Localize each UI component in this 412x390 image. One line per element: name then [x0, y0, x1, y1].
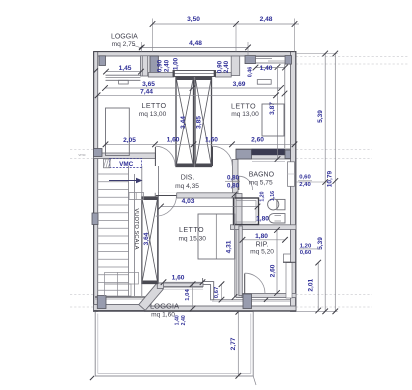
svg-text:1,80: 1,80 — [255, 233, 268, 240]
svg-text:mq 13,00: mq 13,00 — [231, 111, 259, 118]
svg-text:3,69: 3,69 — [233, 81, 246, 88]
svg-text:3,64: 3,64 — [143, 232, 150, 245]
svg-text:mq 13,00: mq 13,00 — [139, 111, 167, 118]
svg-text:1,60: 1,60 — [172, 275, 185, 282]
svg-text:2,48: 2,48 — [260, 16, 273, 23]
svg-text:0,46: 0,46 — [247, 67, 253, 78]
svg-text:0,60: 0,60 — [300, 250, 312, 256]
svg-text:1,16: 1,16 — [270, 191, 276, 201]
svg-text:3,65: 3,65 — [142, 81, 155, 88]
svg-text:2,40: 2,40 — [223, 60, 230, 73]
svg-text:0,80: 0,80 — [227, 175, 240, 182]
svg-text:1,60: 1,60 — [205, 137, 218, 144]
svg-text:mq 5,75: mq 5,75 — [249, 179, 273, 186]
svg-text:LOGGIA: LOGGIA — [150, 302, 180, 311]
svg-text:5,39: 5,39 — [317, 237, 324, 250]
svg-text:1,40: 1,40 — [175, 315, 181, 325]
svg-text:5,39: 5,39 — [317, 110, 324, 123]
svg-text:1,45: 1,45 — [119, 65, 132, 72]
svg-text:2,40: 2,40 — [164, 59, 171, 72]
svg-text:vmc: vmc — [78, 152, 85, 157]
svg-text:4,48: 4,48 — [189, 40, 202, 47]
svg-text:1,80: 1,80 — [256, 215, 269, 222]
svg-text:1,60: 1,60 — [167, 137, 180, 144]
svg-text:VUOTO SCALA: VUOTO SCALA — [133, 208, 139, 249]
svg-text:mq 15,30: mq 15,30 — [178, 236, 206, 243]
svg-text:0,90: 0,90 — [157, 59, 164, 72]
svg-text:mq 1,60: mq 1,60 — [151, 311, 175, 318]
svg-text:mq 2,75: mq 2,75 — [112, 41, 136, 48]
svg-text:3,44: 3,44 — [180, 116, 187, 129]
svg-text:2,01: 2,01 — [308, 278, 315, 291]
svg-text:10,79: 10,79 — [327, 170, 334, 187]
svg-text:DIS.: DIS. — [181, 175, 195, 182]
svg-text:RIP.: RIP. — [256, 242, 269, 249]
svg-text:2,05: 2,05 — [123, 137, 136, 144]
svg-text:LOGGIA: LOGGIA — [111, 34, 138, 41]
svg-text:3,50: 3,50 — [187, 16, 200, 23]
svg-text:4,31: 4,31 — [226, 240, 233, 253]
svg-text:mq 5,20: mq 5,20 — [250, 249, 274, 256]
svg-text:1,04: 1,04 — [185, 289, 191, 301]
svg-text:BAGNO: BAGNO — [249, 172, 275, 179]
svg-text:mq 4,35: mq 4,35 — [175, 183, 199, 190]
svg-text:4,03: 4,03 — [182, 198, 195, 205]
svg-text:1,40: 1,40 — [260, 65, 273, 72]
svg-text:LETTO: LETTO — [231, 102, 256, 111]
svg-text:3,85: 3,85 — [196, 116, 203, 129]
svg-text:2,60: 2,60 — [269, 264, 276, 277]
svg-text:1,20: 1,20 — [260, 191, 266, 201]
svg-text:1,00: 1,00 — [172, 57, 179, 70]
svg-text:2,77: 2,77 — [230, 337, 237, 350]
svg-text:0,80: 0,80 — [227, 182, 240, 189]
svg-text:LETTO: LETTO — [141, 101, 166, 110]
svg-text:2,40: 2,40 — [181, 315, 187, 325]
svg-text:LETTO: LETTO — [179, 225, 204, 234]
svg-text:7,44: 7,44 — [140, 88, 153, 95]
svg-text:0,60: 0,60 — [299, 175, 311, 181]
svg-text:2,60: 2,60 — [251, 137, 264, 144]
svg-text:0,67: 0,67 — [214, 286, 220, 298]
svg-text:VMC: VMC — [119, 161, 134, 168]
svg-text:2,40: 2,40 — [299, 182, 311, 188]
